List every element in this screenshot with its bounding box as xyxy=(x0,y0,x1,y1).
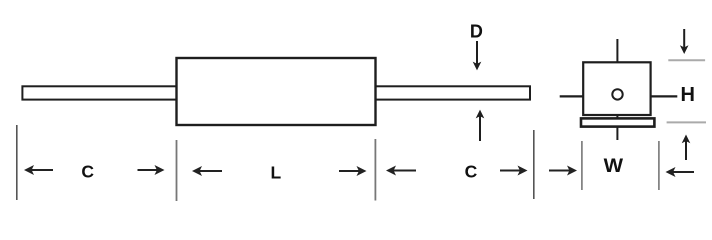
dimension D down arrow xyxy=(476,41,478,65)
svg-text:C: C xyxy=(465,161,478,181)
end-view bottom bar xyxy=(581,118,654,126)
dimension W right outside arrow xyxy=(672,171,694,173)
end-view lead hole circle xyxy=(612,89,622,99)
svg-text:D: D xyxy=(470,22,483,42)
dimension H up arrow xyxy=(685,140,687,160)
dimension D up arrow xyxy=(479,115,481,141)
left lead xyxy=(22,86,177,99)
dimension W left outside arrow xyxy=(549,170,570,172)
dimension L left arrow xyxy=(199,170,222,172)
end-view vertical centerline upper xyxy=(616,39,618,88)
dimension H bottom extension line xyxy=(667,121,706,123)
svg-text:C: C xyxy=(81,161,94,181)
svg-text:H: H xyxy=(680,84,694,106)
extension line at W left xyxy=(581,141,583,190)
dimension C1 right arrow xyxy=(138,169,158,171)
dimension C2 right arrow xyxy=(500,170,521,172)
dimension C2 left arrow xyxy=(393,170,416,172)
end-view vertical centerline lower xyxy=(616,101,618,140)
extension line at left lead end xyxy=(16,125,18,200)
dimension L right arrow xyxy=(339,170,360,172)
end-view horizontal centerline right xyxy=(641,95,677,97)
extension line at body left xyxy=(176,140,178,201)
svg-text:L: L xyxy=(270,163,281,183)
right lead xyxy=(374,86,530,99)
resistor body xyxy=(177,58,376,125)
extension line at body right xyxy=(374,139,376,201)
dimension H down arrow xyxy=(683,29,685,48)
dimension C1 left arrow xyxy=(31,169,53,171)
end-view square body xyxy=(583,62,650,115)
extension line at right lead end xyxy=(533,130,535,199)
dimension H top extension line xyxy=(668,59,705,61)
svg-text:W: W xyxy=(604,156,623,177)
end-view horizontal centerline left xyxy=(560,95,598,97)
extension line at W right xyxy=(658,141,660,190)
